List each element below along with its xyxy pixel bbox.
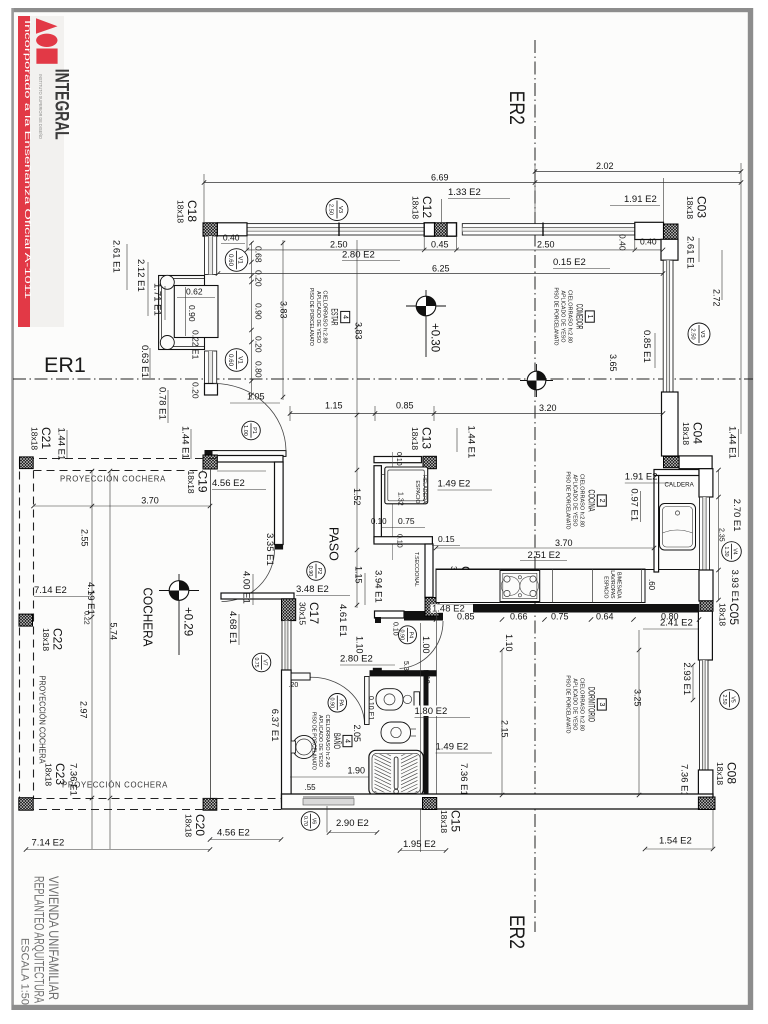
svg-text:18x18: 18x18 [715,762,725,785]
mullion tick right window [542,223,544,237]
extension lines top [203,174,205,222]
wall top at C18 [217,223,247,236]
window right upper 3.65 [663,260,673,392]
bath east wall [424,670,429,796]
svg-text:0.70: 0.70 [302,816,308,826]
svg-text:2: 2 [598,499,605,503]
svg-text:ER2: ER2 [505,915,529,949]
svg-text:1.15: 1.15 [325,401,343,411]
svg-text:1.15: 1.15 [354,566,364,584]
toilet partition [365,677,370,725]
wall paso west [275,462,284,545]
svg-text:18x18: 18x18 [718,603,728,626]
shower [369,750,423,796]
svg-text:PISO DE PORCELANATO: PISO DE PORCELANATO [565,472,571,530]
svg-text:C04: C04 [691,422,705,444]
svg-text:0.90: 0.90 [328,697,334,708]
svg-text:.20: .20 [289,682,299,689]
window circle V4 [722,542,742,562]
svg-text:P4: P4 [408,631,414,638]
wall east below caldera [699,469,713,497]
toilet room north wall [370,670,437,676]
svg-text:0.64: 0.64 [596,612,614,622]
kitchen counter [436,569,645,603]
bay window outer [159,276,205,350]
wall caldera west [654,476,659,573]
wall fridge west [374,466,381,542]
svg-text:3: 3 [598,702,605,706]
svg-text:0.15: 0.15 [438,534,455,544]
dim 3.70 cochera [34,505,211,507]
svg-text:C20: C20 [193,814,207,836]
svg-text:2.90 E2: 2.90 E2 [336,818,369,829]
svg-text:7.14 E2: 7.14 E2 [34,585,67,596]
svg-text:18x18: 18x18 [186,471,196,494]
svg-text:1.49 E2: 1.49 E2 [438,479,471,490]
svg-text:HELADERA: HELADERA [421,475,427,504]
svg-text:1.90: 1.90 [348,766,366,776]
svg-text:0.90: 0.90 [187,305,197,322]
svg-text:0.40: 0.40 [640,237,657,247]
column C15 [423,798,437,810]
cochera dashed south outer [26,809,281,811]
svg-text:PISO DE PORCELANATO: PISO DE PORCELANATO [308,288,314,346]
dim line 2.50/0.45/2.50 [247,249,663,251]
vertical ext line bath [420,623,422,852]
door P4 arc [400,621,444,669]
toilet [376,689,403,710]
svg-text:COMEDOR: COMEDOR [573,304,584,329]
svg-text:APLICADO DE YESO: APLICADO DE YESO [560,291,566,343]
cochera dim verticals [91,471,93,849]
svg-text:0.20: 0.20 [254,270,264,287]
svg-text:P2: P2 [316,568,322,575]
svg-text:18x18: 18x18 [410,427,420,450]
door P2 arc [222,550,275,602]
wall C12 left [424,223,434,236]
bay post lower [160,336,174,350]
logo ellipse [36,34,57,47]
wall right below C03 [661,239,678,260]
svg-text:7.36 E1: 7.36 E1 [458,763,469,796]
svg-text:BAÑO: BAÑO [331,733,342,749]
column C23 [19,798,33,811]
svg-text:0.78 E1: 0.78 E1 [157,387,168,420]
wall paso south black [404,611,443,621]
svg-text:C17: C17 [307,602,321,624]
svg-text:3.70: 3.70 [555,538,573,548]
wall caldera jog [679,456,712,469]
column C14 [425,598,439,617]
svg-text:PASO: PASO [327,527,341,561]
svg-text:2.55: 2.55 [80,529,90,547]
svg-text:PROYECCIÓN COCHERA: PROYECCIÓN COCHERA [60,475,166,484]
svg-text:0.22 E1: 0.22 E1 [191,330,201,360]
svg-text:V7: V7 [262,659,268,665]
wall east dorm upper [698,611,712,660]
dim ticks cochera [31,504,35,508]
svg-text:0.90: 0.90 [254,303,264,320]
svg-text:PISO DE PORCELANATO: PISO DE PORCELANATO [553,288,559,346]
dorm west line [436,612,438,795]
svg-text:PROYECCIÓN COCHERA: PROYECCIÓN COCHERA [38,676,47,765]
svg-text:INSTITUTO SUPERIOR DE DISEÑO: INSTITUTO SUPERIOR DE DISEÑO [38,74,43,140]
svg-text:ESCALA 1:50: ESCALA 1:50 [18,938,30,1005]
svg-text:1.44 E1: 1.44 E1 [466,426,477,459]
svg-text:C13: C13 [420,427,434,449]
window circle V6 [301,812,320,831]
svg-text:PA: PA [337,699,343,706]
window top-left band V3 [247,224,425,235]
svg-text:APLICADO DE YESO: APLICADO DE YESO [572,678,578,730]
dim 1.80 E2 [413,706,455,717]
svg-text:18x18: 18x18 [44,763,54,786]
svg-text:2.50: 2.50 [328,204,334,215]
svg-text:0.90: 0.90 [307,566,313,577]
svg-text:1: 1 [586,315,593,319]
door circle P4 [399,626,417,644]
wall bath west [282,670,292,802]
dim line 2.02 [535,171,741,173]
logo square [36,49,57,64]
svg-text:ESPACIO: ESPACIO [414,480,420,503]
level symbol at ER1-ER2 [520,380,553,382]
svg-text:CIELORRASO h:2.80: CIELORRASO h:2.80 [578,678,584,731]
window circle V3 left [326,199,348,221]
svg-text:3.83: 3.83 [354,322,364,340]
svg-text:18x18: 18x18 [685,196,695,219]
svg-text:PISO DE PORCELANATO: PISO DE PORCELANATO [310,712,316,770]
svg-text:CALDERA: CALDERA [665,482,695,489]
svg-text:1.49 E2: 1.49 E2 [436,742,469,753]
column C05 [700,601,713,611]
svg-text:REPLANTEO ARQUITECTURA: REPLANTEO ARQUITECTURA [32,876,47,1003]
svg-text:C18: C18 [185,200,199,222]
dim chain 0.68/0.20/0.90/0.20/0.80 [251,242,253,398]
svg-text:3.48 E2: 3.48 E2 [296,584,329,595]
logo panel [30,16,64,327]
column C08 [698,797,715,809]
svg-text:0.10: 0.10 [423,670,430,684]
svg-text:1.48 E2: 1.48 E2 [432,604,465,615]
svg-text:COCINA: COCINA [585,490,596,512]
svg-text:7.36 E1: 7.36 E1 [679,764,690,797]
svg-text:6.25: 6.25 [432,264,450,274]
wall caldera top [654,470,699,476]
svg-text:V1: V1 [237,356,244,364]
column C18 [203,223,217,236]
axis ER1 line [13,378,753,380]
page edge top [12,8,753,12]
svg-text:2.70 E1: 2.70 E1 [731,499,742,532]
entry door P1 leaf [212,451,286,457]
svg-text:0.75: 0.75 [398,516,415,526]
svg-text:B/MESADA: B/MESADA [616,572,622,599]
svg-text:V1: V1 [237,256,244,264]
svg-text:1.33 E2: 1.33 E2 [448,187,481,198]
entry door P1 jamb [205,450,218,457]
svg-text:4.00 E1: 4.00 E1 [241,571,252,604]
column C20 [203,798,217,810]
window top-right band V3 [462,224,635,235]
fridge [385,467,428,504]
svg-text:0.97 E1: 0.97 E1 [629,488,640,521]
svg-text:0.45: 0.45 [431,240,449,250]
svg-text:0.75: 0.75 [551,612,569,622]
svg-text:7.14 E2: 7.14 E2 [32,838,65,849]
column C13 [423,456,436,468]
svg-text:2.51 E2: 2.51 E2 [528,550,561,561]
svg-text:3.94 E1: 3.94 E1 [373,570,384,603]
wall paso south white segment [375,611,405,618]
svg-text:0.66: 0.66 [510,612,528,622]
svg-text:1.44 E1: 1.44 E1 [180,426,191,459]
svg-text:C21: C21 [39,427,53,449]
svg-text:1.44 E1: 1.44 E1 [727,426,738,459]
svg-text:CIELORRASO h:2.40: CIELORRASO h:2.40 [324,715,330,768]
svg-text:ER1: ER1 [44,353,86,377]
paso south jamb [375,617,381,623]
window circle V3 right [688,323,710,345]
wall left below window [205,384,218,396]
wall cochera-bath north [221,593,294,599]
svg-text:4: 4 [344,739,351,743]
column C19 [203,455,217,469]
svg-text:3.83: 3.83 [279,301,289,319]
door circle PA [328,694,347,713]
bath door jamb top [291,673,310,680]
axis ER2 line [534,40,536,932]
svg-text:DORMITORIO: DORMITORIO [585,687,596,722]
svg-text:4.19 E1: 4.19 E1 [85,582,96,615]
svg-text:Incorporado a la Enseñanza Ofi: Incorporado a la Enseñanza Oficial A-101… [23,20,32,300]
svg-text:3.70: 3.70 [141,496,159,506]
svg-text:6.69: 6.69 [431,173,449,183]
svg-text:2.72: 2.72 [712,289,722,307]
svg-text:2.12 E1: 2.12 E1 [135,259,146,292]
cochera slab edge [210,469,212,798]
svg-text:1.54 E2: 1.54 E2 [659,836,692,847]
svg-text:0.15 E2: 0.15 E2 [553,257,586,268]
svg-text:18x18: 18x18 [439,810,449,833]
dim 6.25 [218,273,663,275]
svg-text:CIELORRASO h:2.80: CIELORRASO h:2.80 [578,474,584,527]
svg-text:V6: V6 [311,818,317,824]
window circle V5 [720,690,740,710]
dim ticks east [716,468,720,472]
svg-text:2.50: 2.50 [690,328,696,339]
svg-text:4: 4 [341,315,348,319]
svg-text:18x18: 18x18 [411,196,421,219]
svg-text:0.22: 0.22 [83,611,90,625]
window circle V1 lower [225,349,248,372]
svg-text:0.10: 0.10 [371,517,387,526]
svg-text:1.00: 1.00 [421,636,431,654]
wall kitchen south black [436,604,699,613]
svg-text:V5: V5 [730,696,736,702]
svg-text:LAV/ROPAS: LAV/ROPAS [609,570,615,599]
window V7 bath west [282,621,291,670]
logo triangle [36,18,58,34]
svg-text:APLICADO DE YESO: APLICADO DE YESO [572,475,578,527]
window V1 upper left wall [205,236,217,275]
svg-text:0.40: 0.40 [618,234,628,251]
svg-text:18x18: 18x18 [681,422,691,445]
svg-text:2.02: 2.02 [596,161,614,171]
svg-text:7.36 E1: 7.36 E1 [68,763,79,796]
svg-text:2.05: 2.05 [352,725,362,743]
svg-text:ESTAR: ESTAR [329,309,340,326]
dim ticks top lines [202,180,206,184]
svg-text:0.68: 0.68 [254,246,264,263]
svg-text:1.30: 1.30 [723,546,729,556]
dim line 6.69 [204,182,741,184]
svg-text:C19: C19 [196,471,210,493]
svg-text:3.20: 3.20 [539,403,557,413]
svg-text:0.62: 0.62 [186,287,203,297]
column C04 [664,456,680,467]
svg-text:P1: P1 [251,427,257,434]
house south wall [282,794,714,809]
svg-text:C22: C22 [51,628,65,650]
svg-text:6.37 E1: 6.37 E1 [269,709,280,742]
svg-text:0.20: 0.20 [254,336,264,353]
cochera dashed north outer [26,458,217,460]
svg-text:4.68 E1: 4.68 E1 [227,611,238,644]
svg-text:1.52: 1.52 [352,488,362,506]
svg-text:1.91 E2: 1.91 E2 [624,194,657,205]
wall east below window V4 [699,570,713,601]
mullion tick left window [338,223,340,237]
dim 1.48 E2 [431,604,474,613]
svg-text:0.20: 0.20 [191,382,201,399]
svg-text:2.50: 2.50 [330,240,348,250]
dim ticks bottom [24,847,28,851]
window V5 dorm [700,660,709,770]
window V6 sill [303,799,354,806]
svg-text:2.15: 2.15 [500,720,510,738]
svg-text:V3: V3 [699,330,705,337]
svg-text:4.56 E2: 4.56 E2 [212,478,245,489]
column C22 [19,614,33,626]
entry door P1 arc [214,383,287,450]
window circle V1 upper [225,249,248,272]
svg-text:0.10: 0.10 [395,452,402,466]
paso west wall jamb [275,544,284,550]
svg-text:0.90: 0.90 [399,629,405,640]
svg-text:0.75: 0.75 [253,657,259,667]
cochera dashed west outer [19,459,21,811]
svg-text:ESPACIO: ESPACIO [603,576,609,598]
svg-text:1.71 E1: 1.71 E1 [152,283,163,316]
svg-text:1.95 E2: 1.95 E2 [403,839,436,850]
wall east dorm lower [698,770,713,797]
wall cochera north [217,456,283,463]
dim ticks kitchen [434,617,438,621]
svg-text:CIELORRASO h:2.80: CIELORRASO h:2.80 [566,290,572,343]
svg-text:+0.30: +0.30 [429,323,441,352]
svg-text:VIVIENDA UNIFAMILIAR: VIVIENDA UNIFAMILIAR [46,876,61,1000]
column C17 [282,599,296,621]
svg-text:CIELORRASO h:2.80: CIELORRASO h:2.80 [322,291,328,344]
svg-text:+0.29: +0.29 [182,607,194,636]
svg-text:0.85: 0.85 [396,401,414,411]
bath door PA arc [310,677,365,724]
svg-text:0.85 E1: 0.85 E1 [641,330,652,363]
svg-text:2.41 E2: 2.41 E2 [660,618,693,629]
svg-text:1.80 E2: 1.80 E2 [415,706,448,717]
dim row line y413 [290,413,663,415]
dim 3.83 mid [356,240,358,608]
svg-text:1.91 E2: 1.91 E2 [625,472,658,483]
svg-text:APLICADO DE YESO: APLICADO DE YESO [317,715,323,767]
svg-text:4.61 E1: 4.61 E1 [337,604,348,637]
svg-text:18x18: 18x18 [41,628,51,651]
column C08 over wall [698,797,715,809]
svg-text:1.00: 1.00 [242,425,248,436]
svg-text:T.SECCIONAL: T.SECCIONAL [413,552,419,587]
svg-text:4.56 E2: 4.56 E2 [217,828,250,839]
svg-text:C08: C08 [725,762,739,784]
bay window inner opening [174,286,218,338]
bay post upper [160,275,174,289]
svg-text:PISO DE PORCELANATO: PISO DE PORCELANATO [565,675,571,733]
page edge right [748,8,753,1010]
svg-text:.55: .55 [305,783,317,792]
wall right mid [662,392,679,456]
wall top at C03 [635,222,664,239]
cochera dashed south inner [34,798,282,800]
svg-text:3.35 E1: 3.35 E1 [264,533,275,566]
window V1 lower left wall [205,351,217,384]
bath sink [292,735,315,758]
window V4 caldera [700,497,710,570]
svg-text:C03: C03 [695,196,709,218]
svg-text:18x18: 18x18 [30,427,40,450]
svg-text:18x18: 18x18 [184,814,194,837]
level symbol +0.29 cochera [159,590,199,592]
svg-text:0.63 E1: 0.63 E1 [139,345,150,378]
dim ticks mid row [288,411,292,415]
svg-text:1.32: 1.32 [397,492,404,506]
svg-text:3.65: 3.65 [608,354,618,372]
dim ticks vertical chains [249,241,253,245]
svg-text:2.97: 2.97 [79,701,89,719]
page edge bottom [12,1005,753,1010]
svg-text:2.61 E1: 2.61 E1 [111,240,122,273]
column C21 [20,457,34,469]
caldera boiler [660,504,696,551]
svg-text:.60: .60 [647,579,656,591]
svg-text:ER2: ER2 [505,91,529,125]
svg-text:0.10: 0.10 [392,622,399,636]
svg-text:2.61 E1: 2.61 E1 [685,236,696,269]
door circle P1 [242,421,261,440]
svg-text:1.10: 1.10 [355,636,365,654]
bidet [381,722,411,743]
svg-text:C05: C05 [727,603,741,625]
door circle P2 [307,562,326,581]
toilet room notch [373,668,382,672]
svg-text:2.80 E2: 2.80 E2 [342,250,375,261]
svg-text:1.10: 1.10 [504,634,514,652]
wall fridge south [374,537,432,544]
svg-text:1.44 E1: 1.44 E1 [56,428,67,461]
column C03 [664,224,679,239]
wall C12 right [447,223,457,236]
svg-text:0.10: 0.10 [396,534,403,548]
logo red stripe [18,16,30,327]
